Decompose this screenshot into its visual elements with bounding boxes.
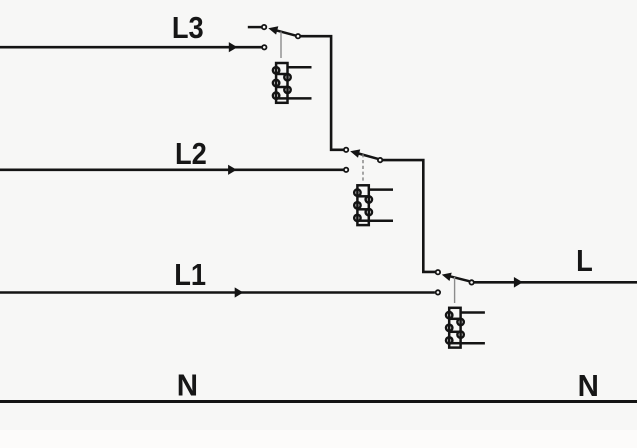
actuator link S2 — [362, 154, 364, 181]
actuator link S3 — [280, 32, 282, 58]
wire L1 — [0, 287, 435, 297]
NC contact S1 — [436, 270, 440, 274]
contact node L3 input — [262, 45, 266, 49]
contact node L1 input — [436, 290, 440, 294]
relay coil K2 — [354, 185, 372, 225]
common contact S3 — [296, 34, 300, 38]
wire L output — [474, 277, 637, 288]
coil K3 terminal wires — [288, 67, 312, 98]
NC stub contact S3 — [248, 25, 266, 29]
svg-text:L: L — [576, 244, 593, 278]
relay coil K3 — [273, 63, 291, 103]
coil K1 terminal wires — [461, 313, 485, 344]
switch lever S1 — [442, 273, 469, 282]
switch lever S3 — [268, 26, 295, 35]
wire S3 common to S2 — [300, 36, 343, 150]
wire N — [0, 400, 637, 403]
common contact S1 — [469, 280, 473, 284]
NC contact S2 — [344, 148, 348, 152]
actuator link S1 — [454, 277, 456, 303]
wire L2 — [0, 165, 344, 175]
common contact S2 — [378, 158, 382, 162]
wire S2 common to S1 — [382, 160, 435, 272]
svg-text:L1: L1 — [174, 259, 206, 293]
wire L3 — [0, 42, 262, 52]
svg-text:L3: L3 — [172, 12, 204, 46]
coil K2 terminal wires — [369, 190, 393, 221]
svg-text:L2: L2 — [175, 138, 207, 172]
bottom band — [0, 430, 637, 448]
svg-text:N: N — [177, 369, 198, 403]
switch lever S2 — [350, 149, 378, 158]
relay coil K1 — [446, 308, 464, 348]
contact node L2 input — [344, 168, 348, 172]
svg-text:N: N — [578, 369, 599, 403]
